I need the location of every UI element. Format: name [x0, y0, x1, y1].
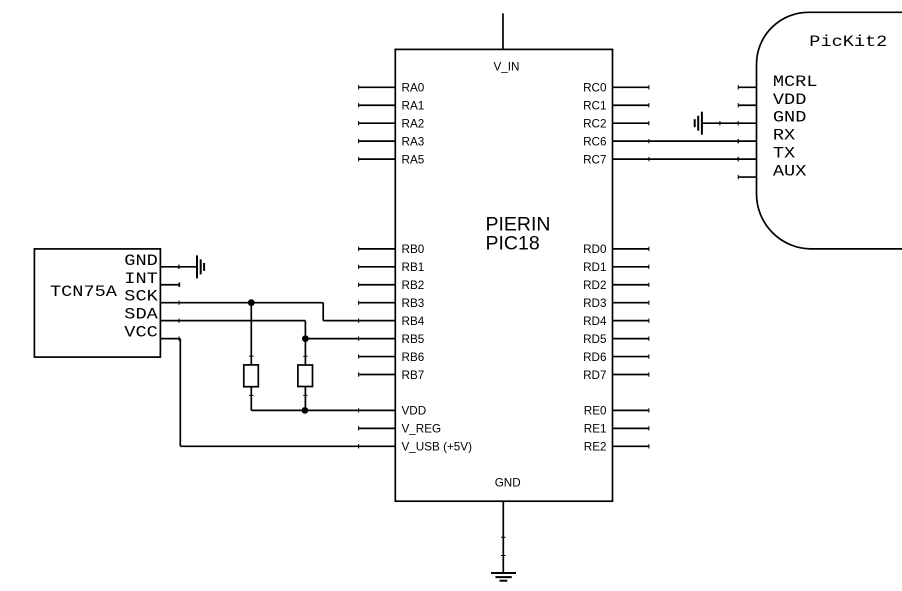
svg-text:RD1: RD1 [583, 261, 606, 274]
pin RD4 of U1 [583, 315, 649, 328]
junction dot R2 bottom / VDD [302, 407, 309, 414]
svg-text:AUX: AUX [773, 163, 807, 181]
pin RD5 of U1 [583, 333, 649, 346]
wire net VCC (horizontal into V_USB) [180, 445, 395, 447]
wire stub INT (U2, unconnected) [160, 283, 179, 287]
pin V_USB (+5V) of U1 [359, 441, 472, 454]
svg-text:RD2: RD2 [583, 279, 606, 292]
svg-text:RA1: RA1 [402, 100, 425, 113]
svg-text:RD7: RD7 [583, 369, 606, 382]
svg-text:GND: GND [773, 109, 807, 127]
resistor R2 [298, 339, 313, 411]
pin INT of U2 [124, 270, 179, 288]
svg-text:RB5: RB5 [402, 333, 425, 346]
svg-text:TCN75A: TCN75A [50, 283, 118, 301]
pin RB7 of U1 [359, 369, 425, 382]
pin GND of U2 [124, 252, 179, 270]
pin RD1 of U1 [583, 261, 649, 274]
wire net VCC (U2 VCC rightwards) [160, 338, 180, 340]
svg-text:VDD: VDD [402, 405, 427, 418]
pin RB4 of U1 [359, 315, 425, 328]
svg-text:INT: INT [124, 270, 158, 288]
pin RB3 of U1 [359, 297, 425, 310]
wire net TX (U1 RC7 to J1 TX) [613, 157, 757, 161]
junction dot SDA / R2 top / RB5 [302, 335, 309, 342]
pin VDD of J1 [738, 91, 806, 109]
wire net GND (ground to J1 GND) [702, 121, 757, 125]
pin RC7 of U1 [583, 153, 649, 166]
pin RC6 of U1 [583, 135, 649, 148]
svg-text:RD4: RD4 [583, 315, 607, 328]
pin RA0 of U1 [359, 82, 425, 95]
ground symbol at U2 GND [197, 255, 204, 278]
svg-text:RB1: RB1 [402, 261, 425, 274]
pin SCK of U2 [124, 288, 179, 306]
svg-text:RC1: RC1 [583, 100, 606, 113]
svg-text:PicKit2: PicKit2 [809, 33, 887, 51]
pin RE1 of U1 [584, 423, 649, 436]
pin V_IN of U1 [494, 13, 520, 73]
IC U1 PIERIN PIC18 body [395, 49, 612, 501]
svg-text:VDD: VDD [773, 91, 807, 109]
pin TX of J1 [738, 145, 795, 163]
pin RD3 of U1 [583, 297, 649, 310]
svg-text:RB2: RB2 [402, 279, 425, 292]
pin RA1 of U1 [359, 100, 425, 113]
wire net VDD (R1/R2 bottoms into U1 VDD) [251, 409, 395, 411]
pin RA5 of U1 [359, 153, 425, 166]
pin RA2 of U1 [359, 118, 425, 131]
svg-text:RE2: RE2 [584, 441, 607, 454]
svg-text:RC2: RC2 [583, 118, 606, 131]
pin RB2 of U1 [359, 279, 425, 292]
sensor U2 TCN75A body [34, 249, 160, 357]
connector J1 PicKit2 body [757, 12, 902, 249]
junction dot SCK / R1 top [248, 299, 255, 306]
svg-text:RD0: RD0 [583, 243, 607, 256]
pin VDD of U1 [359, 405, 427, 418]
svg-text:RC0: RC0 [583, 82, 607, 95]
svg-text:SDA: SDA [124, 306, 158, 324]
ground symbol at U1 GND [491, 573, 516, 581]
pin RD6 of U1 [583, 351, 649, 364]
pin AUX of J1 [738, 163, 806, 181]
ground symbol at J1 GND [695, 112, 702, 135]
pin GND of J1 [738, 109, 806, 127]
svg-text:RC6: RC6 [583, 135, 606, 148]
pin RD7 of U1 [583, 369, 649, 382]
pin RE2 of U1 [584, 441, 649, 454]
pin RE0 of U1 [584, 405, 649, 418]
svg-text:GND: GND [495, 477, 521, 490]
svg-text:RD5: RD5 [583, 333, 607, 346]
pin RB1 of U1 [359, 261, 425, 274]
pin MCRL of J1 [738, 73, 817, 91]
svg-text:GND: GND [124, 252, 158, 270]
wire net SCK (vertical jog) [322, 303, 324, 321]
svg-text:VCC: VCC [124, 324, 158, 342]
svg-text:RB3: RB3 [402, 297, 425, 310]
pin RC0 of U1 [583, 82, 649, 95]
svg-text:RE1: RE1 [584, 423, 607, 436]
svg-text:RA0: RA0 [402, 82, 425, 95]
pin RB5 of U1 [359, 333, 425, 346]
svg-text:RD6: RD6 [583, 351, 606, 364]
pin SDA of U2 [124, 306, 179, 324]
svg-text:RX: RX [773, 127, 795, 145]
svg-text:PIC18: PIC18 [486, 233, 540, 255]
pin RD0 of U1 [583, 243, 649, 256]
wire net SCK (U2 SCK to U1 RB4, horizontal at SCK row) [160, 302, 323, 304]
svg-text:MCRL: MCRL [773, 73, 818, 91]
svg-text:V_REG: V_REG [402, 423, 442, 436]
pin V_REG of U1 [359, 423, 442, 436]
pin RB0 of U1 [359, 243, 425, 256]
pin RC2 of U1 [583, 118, 649, 131]
svg-text:RA5: RA5 [402, 153, 425, 166]
wire net SDA (horizontal into RB5) [305, 338, 395, 340]
svg-text:SCK: SCK [124, 288, 158, 306]
pin RA3 of U1 [359, 135, 425, 148]
wire net GND (U1 bottom pin to ground) [501, 537, 505, 572]
pin RC1 of U1 [583, 100, 649, 113]
wire net GND (U2 pin GND to ground) [160, 265, 197, 269]
svg-text:V_IN: V_IN [494, 61, 520, 74]
pin RB6 of U1 [359, 351, 425, 364]
wire net VCC (vertical down) [179, 339, 181, 447]
svg-text:RC7: RC7 [583, 153, 606, 166]
svg-text:RD3: RD3 [583, 297, 606, 310]
wire net SDA (U2 SDA rightwards) [160, 320, 305, 322]
svg-text:RB0: RB0 [402, 243, 425, 256]
wire net SDA (vertical to R2 and RB5 row) [304, 321, 306, 339]
svg-text:RB4: RB4 [402, 315, 425, 328]
pin RD2 of U1 [583, 279, 649, 292]
svg-text:RB7: RB7 [402, 369, 425, 382]
svg-text:RA3: RA3 [402, 135, 425, 148]
svg-text:RA2: RA2 [402, 118, 425, 131]
svg-text:V_USB (+5V): V_USB (+5V) [402, 441, 473, 454]
resistor R1 [244, 303, 258, 411]
pin VCC of U2 [124, 324, 179, 342]
wire net SCK (horizontal into RB4) [323, 320, 395, 322]
pin GND of U1 [495, 477, 521, 538]
pin RX of J1 [738, 127, 795, 145]
svg-text:RE0: RE0 [584, 405, 607, 418]
svg-text:RB6: RB6 [402, 351, 425, 364]
svg-text:TX: TX [773, 145, 795, 163]
wire net RX (U1 RC6 to J1 RX) [613, 139, 757, 143]
